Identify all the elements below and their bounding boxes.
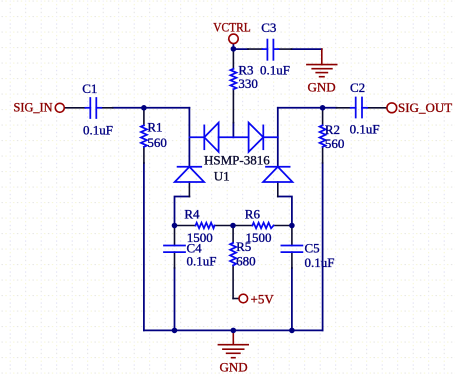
svg-text:0.1uF: 0.1uF [305, 255, 335, 270]
svg-text:GND: GND [308, 79, 336, 94]
svg-text:330: 330 [238, 76, 258, 91]
svg-text:GND: GND [220, 359, 248, 374]
svg-text:R5: R5 [236, 239, 251, 254]
svg-text:0.1uF: 0.1uF [350, 121, 380, 136]
svg-text:C5: C5 [305, 241, 320, 256]
svg-text:R6: R6 [245, 206, 261, 221]
svg-text:R2: R2 [325, 122, 340, 137]
svg-text:U1: U1 [214, 168, 230, 183]
svg-text:680: 680 [236, 253, 256, 268]
svg-text:C3: C3 [261, 20, 276, 35]
svg-text:0.1uF: 0.1uF [187, 253, 217, 268]
svg-text:0.1uF: 0.1uF [260, 62, 290, 77]
svg-text:VCTRL: VCTRL [213, 20, 251, 35]
svg-text:560: 560 [325, 136, 345, 151]
svg-text:SIG_IN: SIG_IN [14, 100, 54, 115]
svg-text:SIG_OUT: SIG_OUT [398, 100, 452, 115]
svg-text:HSMP-3816: HSMP-3816 [204, 152, 270, 167]
svg-text:0.1uF: 0.1uF [83, 122, 113, 137]
svg-text:+5V: +5V [251, 291, 275, 306]
svg-text:R1: R1 [147, 119, 162, 134]
svg-text:C1: C1 [82, 81, 97, 96]
svg-text:560: 560 [147, 135, 167, 150]
svg-text:C2: C2 [350, 80, 365, 95]
svg-text:R4: R4 [184, 206, 200, 221]
